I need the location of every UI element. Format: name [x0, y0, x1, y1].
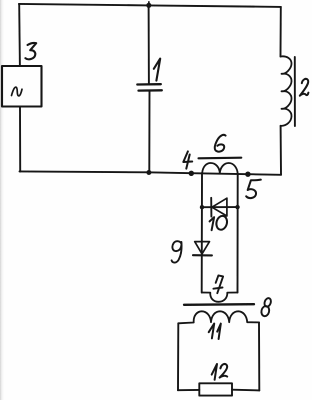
inductor L7 single-turn bottom loop: [202, 293, 238, 302]
AC source U3 box: [2, 66, 42, 107]
wire right vertical lower: [280, 126, 282, 175]
diode V10 triangle: [212, 198, 227, 216]
label 11: [209, 324, 221, 339]
wire capacitor branch upper: [148, 5, 150, 84]
transformer T8 core bar: [184, 303, 254, 306]
label 5: [246, 180, 261, 198]
wire load loop left vertical: [177, 323, 179, 390]
wire branch right vertical: [237, 174, 239, 293]
wire load loop right vertical: [258, 322, 260, 390]
label 10: [210, 217, 215, 230]
diode V10 junction dot left: [200, 205, 204, 209]
inductor L6 coil: [202, 163, 238, 174]
capacitor C1 bottom plate: [139, 89, 162, 92]
inductor L2 core line: [294, 57, 296, 126]
wire left vertical lower: [19, 107, 21, 172]
resistor R12 box: [199, 383, 232, 395]
label 7: [213, 275, 223, 293]
diode V10 wire: [202, 206, 238, 208]
wire right vertical upper: [280, 7, 282, 57]
label 8: [263, 297, 272, 307]
inductor L2 coil: [281, 56, 292, 126]
label 12: [212, 364, 228, 380]
junction node capacitor to middle wire: [146, 170, 151, 175]
wire load loop bottom left: [178, 389, 199, 391]
wire middle horizontal: [20, 171, 282, 174]
diode V10 cathode bar: [210, 198, 212, 217]
AC sine symbol: [12, 87, 23, 96]
diode V9 cathode bar: [193, 254, 212, 256]
wire branch left vertical: [201, 173, 203, 293]
wire top horizontal: [19, 4, 281, 7]
wire load loop bottom right: [232, 389, 259, 392]
inductor L11 coil: [178, 311, 259, 323]
node 5 junction dot: [245, 172, 250, 177]
label 4: [183, 151, 192, 168]
diode V10 junction dot right: [235, 205, 239, 209]
junction node at top of capacitor branch: [146, 3, 151, 8]
label 6: [215, 135, 226, 152]
label 1: [154, 59, 160, 81]
capacitor C1 top plate: [137, 83, 161, 86]
wire left vertical upper: [18, 4, 21, 66]
node 4 junction dot: [189, 171, 194, 176]
wire capacitor branch lower: [148, 91, 150, 172]
diode V9 triangle: [195, 242, 210, 254]
label 9: [172, 241, 182, 262]
label 2: [300, 79, 309, 96]
inductor L6 core bar: [199, 157, 242, 160]
label 3: [25, 43, 36, 59]
